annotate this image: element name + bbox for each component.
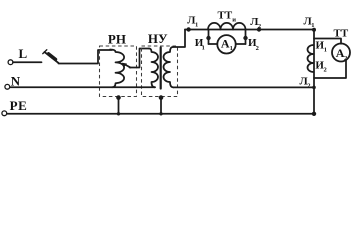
svg-text:PE: PE	[10, 98, 28, 113]
wire TT I1 to ammeter A2	[314, 39, 341, 44]
junction dot L2 terminal on bus	[257, 27, 261, 31]
svg-text:РН: РН	[108, 32, 126, 47]
svg-text:2: 2	[324, 66, 327, 73]
terminal PE	[2, 111, 7, 116]
PH case earth wire	[118, 97, 120, 114]
switch S blade	[45, 52, 59, 63]
wire switch to PH box	[59, 50, 113, 64]
ammeter A1	[217, 35, 235, 53]
junction dot bus right corner	[312, 28, 316, 32]
terminal N	[5, 84, 10, 89]
svg-text:НУ: НУ	[148, 31, 168, 46]
junction dot TT to PE	[312, 112, 316, 116]
wire N line	[10, 86, 155, 88]
wire NU secondary riser to bus	[173, 30, 185, 48]
svg-text:ТТ: ТТ	[218, 10, 233, 22]
svg-text:1: 1	[311, 22, 314, 29]
junction dot I2	[243, 36, 247, 40]
transformer NU core	[160, 48, 162, 89]
svg-text:N: N	[11, 74, 21, 89]
junction dot NU earth on PE	[159, 112, 162, 115]
PH wiper tap arrow	[125, 65, 131, 68]
wire high-current return line	[174, 86, 315, 88]
switch S blade thick part	[49, 54, 56, 60]
junction dot return to TT	[312, 86, 316, 90]
NU case earth wire	[160, 97, 162, 114]
PH case earth junction dot	[116, 95, 121, 100]
NU case earth junction dot	[159, 95, 164, 100]
junction dot I1	[206, 36, 210, 40]
TT primary vertical wire	[313, 30, 315, 114]
svg-text:2: 2	[344, 55, 347, 62]
wire PE line	[7, 113, 314, 115]
TTi secondary drop left	[208, 30, 210, 44]
svg-text:1: 1	[202, 44, 205, 51]
TT secondary winding humps	[308, 45, 314, 72]
svg-text:1: 1	[324, 47, 327, 54]
svg-text:2: 2	[256, 45, 259, 52]
box NU (dashed enclosure)	[142, 46, 178, 97]
wire ammeter A1 loop	[209, 43, 246, 45]
terminal L	[8, 60, 13, 65]
wire L to switch	[13, 61, 42, 63]
box PH (dashed enclosure)	[100, 46, 137, 97]
ammeter A2	[332, 44, 350, 62]
svg-text:2: 2	[258, 23, 261, 30]
junction dot bus left	[186, 27, 190, 31]
switch S blade end tick	[43, 50, 47, 54]
wire top bus	[185, 29, 314, 31]
svg-text:А: А	[221, 36, 230, 50]
autotransformer PH winding	[110, 50, 124, 88]
junction dot PH earth on PE	[117, 112, 120, 115]
transformer NU primary winding	[149, 49, 158, 88]
wire TT I2 to ammeter A2	[314, 60, 346, 78]
svg-text:1: 1	[195, 22, 198, 29]
svg-text:и: и	[232, 17, 236, 24]
svg-text:L: L	[19, 46, 28, 61]
wire PH tap to NU primary	[130, 49, 150, 68]
svg-text:1: 1	[230, 45, 233, 52]
transformer NU secondary winding	[164, 47, 174, 87]
TTi secondary drop right	[245, 30, 247, 44]
TTi primary winding humps	[208, 23, 246, 30]
